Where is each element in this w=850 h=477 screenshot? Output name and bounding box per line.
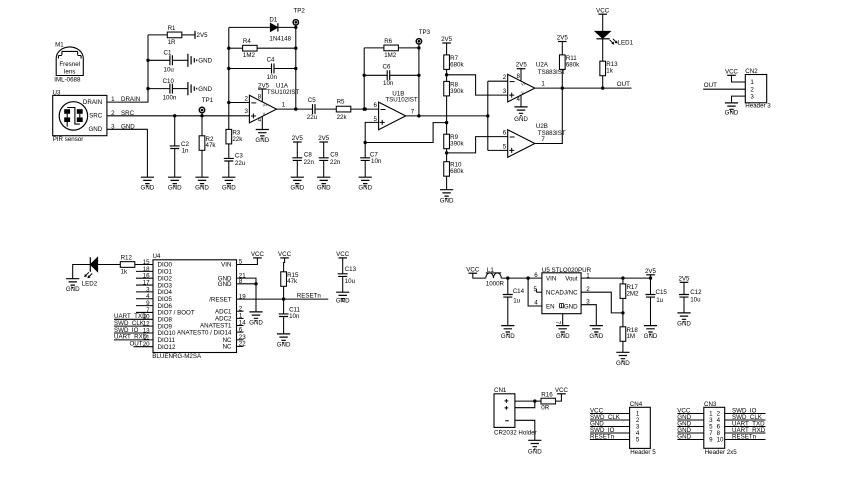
wire: [323, 160, 325, 177]
svg-text:Header 2x5: Header 2x5: [705, 449, 738, 456]
svg-text:R6: R6: [384, 38, 392, 45]
svg-text:VCC: VCC: [336, 251, 350, 258]
svg-text:OUT: OUT: [617, 81, 630, 88]
svg-text:ANATEST0 / DIO14: ANATEST0 / DIO14: [177, 329, 232, 336]
wire: [446, 176, 448, 190]
resistor R4: [243, 38, 258, 59]
svg-text:VIN: VIN: [546, 275, 556, 282]
Fresnel lens M1: [54, 42, 83, 84]
wire: [515, 401, 535, 408]
svg-text:D1: D1: [269, 17, 277, 24]
ground: [277, 334, 291, 349]
svg-text:1k: 1k: [121, 268, 128, 275]
ground: [589, 326, 603, 341]
ground: [644, 326, 658, 341]
svg-text:GND: GND: [222, 185, 236, 192]
svg-text:10: 10: [717, 437, 724, 444]
svg-text:ADJ/NC: ADJ/NC: [555, 290, 578, 297]
U4 pin 15 DIO0: [143, 259, 173, 269]
wire: [561, 42, 563, 55]
wire: [229, 47, 243, 49]
wire: [418, 48, 420, 116]
svg-text:2V5: 2V5: [441, 36, 453, 43]
op-amp U1B: [373, 91, 417, 130]
op-amp U1A: [249, 82, 299, 129]
resistor R15: [281, 272, 299, 287]
svg-text:2: 2: [244, 95, 248, 102]
wire: [507, 278, 509, 294]
svg-text:RESETn: RESETn: [590, 434, 615, 441]
resistor R7: [444, 55, 465, 70]
svg-text:CN1: CN1: [494, 387, 507, 394]
svg-text:22u: 22u: [307, 114, 318, 121]
regulator U5: [542, 267, 592, 314]
svg-text:10n: 10n: [383, 80, 394, 87]
svg-text:1000R: 1000R: [486, 281, 505, 288]
wire: [148, 34, 167, 36]
svg-text:1R: 1R: [168, 39, 176, 46]
svg-text:C8: C8: [304, 152, 312, 159]
wire: [602, 39, 604, 61]
wire U2B out: [535, 88, 562, 143]
wire: [622, 341, 624, 352]
LED LED1: [595, 31, 634, 46]
resistor R8: [444, 81, 465, 96]
wire: [622, 278, 624, 284]
svg-text:Header 3: Header 3: [745, 103, 771, 110]
svg-text:BLUENRG-M2SA: BLUENRG-M2SA: [152, 353, 202, 360]
wire net RESETn: [590, 434, 630, 441]
U3 pin 3 GND: [111, 123, 135, 130]
wire: [622, 298, 624, 326]
svg-text:2V5: 2V5: [645, 268, 657, 275]
wire: [446, 43, 448, 55]
svg-text:1M2: 1M2: [384, 52, 397, 59]
svg-text:6: 6: [534, 272, 538, 279]
svg-text:22n: 22n: [304, 159, 315, 166]
svg-text:GND: GND: [616, 360, 630, 367]
wire: [398, 47, 419, 49]
wire: [283, 299, 285, 314]
ground: [616, 352, 630, 367]
U4 pin 2 ADC1: [215, 305, 244, 315]
wire: [446, 69, 448, 81]
wire: [535, 400, 541, 402]
svg-text:7: 7: [554, 321, 561, 325]
svg-text:R12: R12: [121, 254, 133, 261]
ground: [188, 54, 213, 67]
U4 pin 21 GND: [218, 272, 246, 282]
svg-text:10n: 10n: [371, 158, 382, 165]
svg-text:VCC: VCC: [596, 7, 610, 14]
svg-text:22n: 22n: [330, 159, 341, 166]
resistor R11: [559, 55, 580, 70]
svg-text:C6: C6: [383, 63, 391, 70]
svg-text:1: 1: [541, 81, 545, 88]
U5 pin 3 GND: [581, 299, 596, 326]
wire: [148, 59, 170, 61]
resistor R1: [167, 25, 182, 46]
wire: [283, 286, 285, 299]
junction: [146, 59, 149, 91]
wire: [515, 420, 535, 440]
U4 pin 6 ANATEST0 / DIO14: [177, 326, 244, 336]
svg-text:CR2032 Holder: CR2032 Holder: [494, 429, 537, 436]
inductor L1: [486, 267, 505, 288]
svg-text:680k: 680k: [450, 61, 464, 68]
svg-text:47k: 47k: [206, 142, 217, 149]
wire U2A out: [535, 81, 631, 89]
svg-text:8: 8: [258, 93, 262, 100]
wire: [228, 103, 230, 130]
U4 pin 4 DIO5: [136, 293, 173, 303]
svg-text:VCC: VCC: [466, 266, 480, 273]
svg-text:GND: GND: [195, 185, 209, 192]
svg-text:3: 3: [244, 108, 248, 115]
svg-text:GND: GND: [514, 116, 528, 123]
svg-text:LED1: LED1: [618, 39, 634, 46]
svg-text:SRC: SRC: [89, 113, 103, 120]
capacitor C7: [360, 143, 382, 166]
wire: [228, 144, 230, 159]
LED LED2: [82, 257, 98, 287]
U4 pin 3 DIO4: [136, 286, 173, 296]
wire net UART_TXD: [114, 313, 153, 320]
wire U1A pin2: [229, 95, 250, 102]
U4 pin 8 GND: [218, 278, 243, 288]
wire net OUT: [129, 341, 153, 348]
svg-text:GND: GND: [556, 333, 570, 340]
module U4: [152, 253, 236, 360]
wire: [237, 278, 257, 312]
svg-text:GND: GND: [528, 449, 542, 456]
wire net SWD_CLK: [590, 414, 630, 421]
wire U1A out: [277, 102, 313, 109]
svg-text:TP1: TP1: [202, 97, 214, 104]
svg-text:GND: GND: [255, 137, 269, 144]
svg-text:1N4148: 1N4148: [269, 35, 291, 42]
junction: [363, 74, 366, 111]
junction: [227, 47, 230, 105]
wire: [561, 69, 563, 88]
svg-text:10u: 10u: [690, 297, 701, 304]
U4 pin 22 NC: [223, 341, 247, 351]
wire net VCC: [677, 408, 704, 415]
ground: [195, 177, 209, 192]
svg-text:U4: U4: [153, 253, 161, 260]
svg-text:GND: GND: [677, 434, 691, 441]
svg-text:47k: 47k: [287, 278, 298, 285]
svg-text:GND: GND: [290, 185, 304, 192]
resistor R10: [444, 162, 465, 177]
svg-text:Header 5: Header 5: [630, 449, 656, 456]
svg-text:22u: 22u: [235, 160, 246, 167]
U4 pin 12 DIO9: [143, 321, 173, 331]
svg-text:VCC: VCC: [555, 387, 569, 394]
svg-text:C15: C15: [656, 289, 668, 296]
wire: [229, 68, 271, 70]
svg-text:C3: C3: [235, 152, 243, 159]
svg-text:GND: GND: [677, 321, 691, 328]
label pin3: [503, 88, 507, 95]
wire ADJ: [581, 286, 623, 313]
svg-text:V+: V+: [521, 82, 526, 86]
svg-text:390k: 390k: [450, 141, 464, 148]
wire: [556, 394, 562, 401]
wire: [364, 74, 387, 76]
wire net VCC: [590, 408, 630, 415]
svg-text:NC: NC: [546, 290, 555, 297]
svg-text:C4: C4: [267, 57, 275, 64]
label OUT: [704, 82, 717, 89]
op-amp U2A: [508, 62, 566, 107]
svg-text:4: 4: [258, 116, 262, 123]
junction: [621, 276, 652, 279]
capacitor C8: [292, 152, 314, 167]
svg-text:R4: R4: [243, 38, 251, 45]
wire: [364, 160, 366, 177]
svg-text:NC: NC: [223, 344, 232, 351]
svg-text:C14: C14: [513, 288, 525, 295]
svg-text:V+: V+: [263, 103, 268, 107]
svg-text:M1: M1: [55, 42, 64, 49]
wire net SWD_IO: [725, 408, 766, 415]
capacitor C10: [163, 78, 177, 102]
svg-text:22k: 22k: [232, 136, 243, 143]
wire: [650, 275, 652, 295]
svg-text:U2A: U2A: [536, 62, 549, 69]
svg-text:VCC: VCC: [725, 69, 739, 76]
svg-text:GND: GND: [141, 185, 155, 192]
wire net GND: [677, 421, 704, 428]
wire net UART_TXD: [725, 421, 766, 428]
wire: [173, 88, 188, 90]
ground: [556, 326, 570, 341]
wire: [201, 150, 203, 177]
svg-text:22k: 22k: [337, 114, 348, 121]
label OUT: [617, 81, 630, 88]
junction: [364, 107, 367, 110]
wire bias: [365, 123, 446, 143]
svg-text:1n: 1n: [182, 147, 189, 154]
U4 pin 19 /RESET: [209, 293, 246, 303]
resistor R6: [384, 38, 399, 59]
U4 pin 18 DIO1: [136, 266, 173, 276]
U4 pin 16 DIO2: [136, 273, 173, 283]
label PIR sensor: [53, 136, 84, 143]
PIR sensor U3: [53, 89, 107, 135]
wire: [683, 297, 685, 313]
supply VCC: [725, 69, 739, 76]
U4 pin 7 DIO7 / BOOT: [136, 307, 195, 317]
label pin3: [244, 108, 248, 115]
wire: [135, 264, 153, 266]
wire: [228, 161, 230, 177]
svg-text:TP3: TP3: [419, 29, 431, 36]
svg-text:C5: C5: [308, 97, 316, 104]
junction: [282, 297, 285, 300]
supply VCC: [251, 251, 265, 258]
svg-text:C1: C1: [164, 50, 172, 57]
capacitor C12: [679, 289, 702, 303]
ground: [725, 103, 739, 117]
wire: [650, 297, 652, 326]
label pin2: [503, 74, 507, 81]
test point TP3: [416, 29, 430, 48]
svg-text:680k: 680k: [450, 168, 464, 175]
wire: [296, 160, 298, 177]
wire: [174, 149, 176, 178]
svg-text:7: 7: [541, 136, 545, 143]
svg-text:GND: GND: [440, 197, 454, 204]
resistor R16: [541, 391, 556, 411]
svg-text:GND: GND: [277, 342, 291, 349]
svg-text:1u: 1u: [656, 297, 663, 304]
svg-text:5: 5: [636, 437, 640, 444]
wire: [284, 258, 285, 272]
svg-text:R1: R1: [168, 25, 176, 32]
U4 pin 23 NC: [223, 334, 247, 344]
ground: [249, 312, 263, 327]
svg-text:/RESET: /RESET: [209, 296, 232, 303]
svg-text:10u: 10u: [345, 278, 356, 285]
svg-text:390k: 390k: [450, 88, 464, 95]
svg-text:2V5: 2V5: [318, 135, 330, 142]
svg-text:5: 5: [503, 143, 507, 150]
ground: [141, 177, 155, 192]
capacitor C15: [646, 289, 668, 304]
svg-text:680k: 680k: [566, 61, 580, 68]
svg-text:ADC1: ADC1: [215, 308, 232, 315]
connector CN3: [704, 401, 737, 456]
junction: [417, 46, 420, 117]
junction: [173, 114, 204, 117]
svg-text:RESETn: RESETn: [297, 293, 322, 300]
svg-text:TSU102IST: TSU102IST: [267, 89, 300, 96]
ground: [440, 190, 454, 205]
svg-text:GND: GND: [644, 333, 658, 340]
svg-text:C9: C9: [330, 152, 338, 159]
svg-text:Vout: Vout: [565, 275, 578, 282]
wire signal: [488, 81, 508, 150]
svg-text:R16: R16: [541, 391, 553, 398]
U4 pin 13 DIO10: [143, 327, 176, 337]
capacitor C6: [383, 63, 394, 86]
svg-text:OUT: OUT: [129, 341, 142, 348]
svg-text:10u: 10u: [164, 67, 175, 74]
capacitor C3: [224, 152, 246, 167]
svg-text:4: 4: [534, 300, 538, 307]
svg-text:DIO12: DIO12: [158, 344, 176, 351]
U4 pin 9 DIO6: [136, 300, 173, 310]
wire: [257, 47, 296, 49]
wire: [390, 74, 419, 76]
wire: [473, 273, 486, 278]
wire: [683, 282, 685, 294]
junction: [561, 86, 605, 89]
wire: [229, 27, 270, 102]
svg-text:8: 8: [516, 73, 520, 80]
U4 pin 20 DIO12: [143, 341, 176, 351]
wire net SWD_IO: [114, 327, 153, 334]
wire net GND: [590, 421, 630, 428]
svg-text:C13: C13: [345, 266, 357, 273]
svg-text:GND: GND: [725, 110, 739, 117]
wire net UART_RXD: [725, 427, 766, 434]
svg-text:GND: GND: [168, 185, 182, 192]
supply VCC: [555, 387, 569, 394]
svg-text:3: 3: [750, 93, 754, 100]
svg-text:lens: lens: [64, 68, 75, 75]
wire OUT: [703, 88, 745, 90]
wire DRAIN: [107, 35, 148, 102]
junction: [533, 399, 536, 402]
svg-text:GND: GND: [249, 320, 263, 327]
svg-text:2M2: 2M2: [626, 290, 639, 297]
U4 pin 10 DIO8: [143, 314, 173, 324]
wire: [363, 48, 365, 109]
ground: [222, 177, 236, 192]
svg-text:6: 6: [503, 130, 507, 137]
wire net GND: [677, 427, 704, 434]
ground: [168, 177, 182, 192]
U5 pin 6: [534, 272, 538, 279]
wire: [507, 297, 509, 326]
U5 exposed pad: [554, 314, 563, 326]
svg-text:ADC2: ADC2: [215, 316, 232, 323]
U4 pin 1 ADC2: [215, 313, 244, 323]
U5 pin 4: [534, 300, 538, 307]
capacitor C4: [267, 57, 278, 81]
junction: [445, 151, 448, 154]
svg-text:VCC: VCC: [278, 251, 292, 258]
wire: [295, 27, 297, 109]
junction: [445, 73, 448, 76]
supply 2V5: [441, 36, 453, 43]
U4 pin 17 DIO3: [136, 279, 173, 289]
wire net SWD_IO: [590, 427, 630, 434]
svg-text:7: 7: [411, 109, 415, 116]
svg-text:Fresnel: Fresnel: [59, 61, 80, 68]
wire: [148, 88, 170, 90]
svg-text:GND: GND: [589, 333, 603, 340]
resistor R13: [600, 61, 618, 76]
U3 pin 1 DRAIN: [111, 96, 140, 103]
capacitor C9: [319, 152, 341, 167]
wire net RESETn: [725, 434, 766, 441]
svg-text:2V5: 2V5: [197, 32, 209, 39]
svg-text:2V5: 2V5: [557, 35, 569, 42]
wire: [323, 142, 325, 158]
resistor R3: [226, 129, 243, 144]
supply 2V5: [645, 268, 657, 275]
svg-text:9: 9: [709, 437, 713, 444]
svg-text:TP2: TP2: [294, 8, 306, 15]
diode D1: [269, 17, 291, 43]
svg-text:EN: EN: [546, 303, 555, 310]
svg-text:DRAIN: DRAIN: [83, 99, 102, 106]
ground: [255, 130, 269, 145]
svg-text:GND: GND: [358, 185, 372, 192]
supply 2V5: [318, 135, 330, 142]
supply 2V5: [195, 31, 208, 39]
svg-text:4: 4: [516, 96, 520, 103]
ground: [290, 177, 304, 192]
resistor R18: [620, 327, 638, 342]
capacitor C5: [307, 97, 318, 121]
svg-text:GND: GND: [198, 58, 212, 65]
U4 pin 5 VIN: [221, 259, 243, 269]
